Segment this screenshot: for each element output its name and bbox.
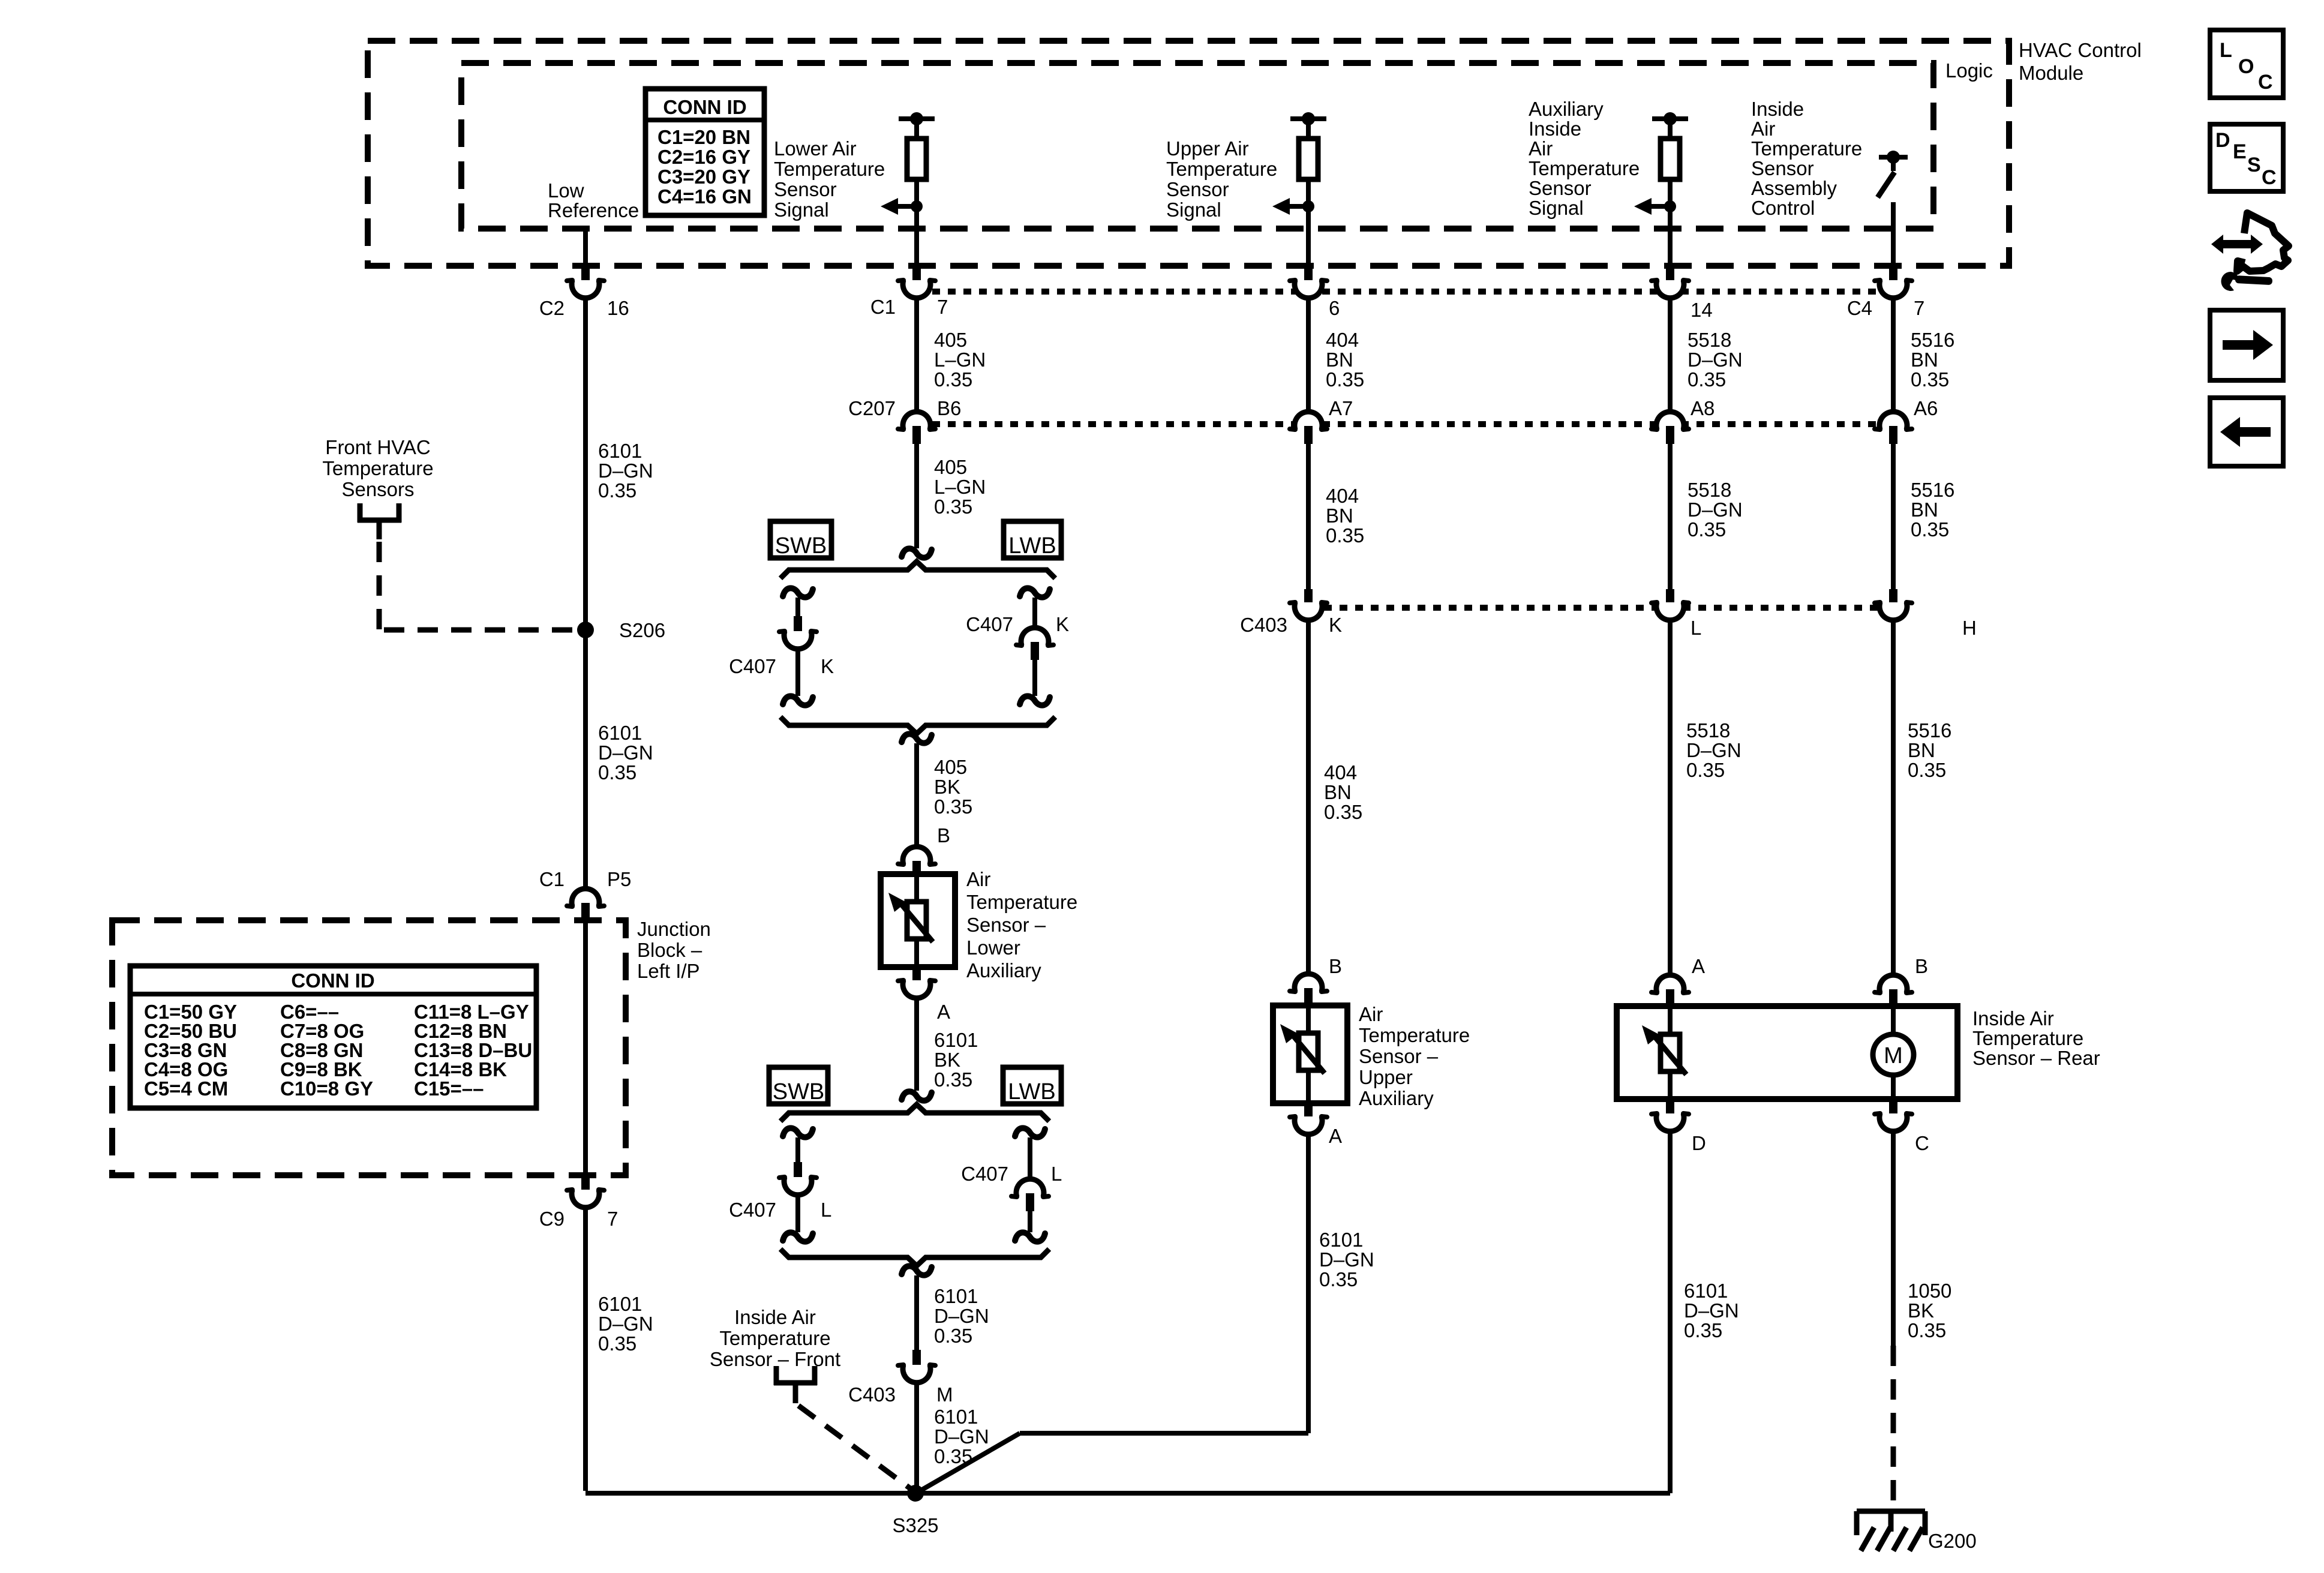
svg-text:0.35: 0.35: [1319, 1268, 1358, 1290]
switch inside air temp sensor assembly control (col5): [1879, 155, 1908, 160]
dotted net row C1 pins: [917, 289, 1893, 295]
svg-text:C4: C4: [1847, 297, 1872, 319]
thermistor lower aux: [907, 902, 926, 939]
svg-text:L: L: [2220, 39, 2232, 62]
svg-text:C1: C1: [539, 868, 565, 890]
svg-text:6: 6: [1329, 297, 1340, 319]
svg-text:A8: A8: [1691, 397, 1715, 419]
connector pin A upper aux sensor: [1304, 1103, 1313, 1120]
svg-text:D–GN: D–GN: [934, 1305, 989, 1327]
svg-text:O: O: [2238, 55, 2254, 78]
svg-text:404: 404: [1326, 329, 1359, 351]
svg-text:L–GN: L–GN: [934, 349, 986, 371]
connector pin C rear sensor: [1889, 1099, 1897, 1117]
dashed lead front sensor to S325: [798, 1406, 912, 1490]
svg-text:S: S: [2247, 154, 2261, 176]
svg-text:L: L: [821, 1199, 831, 1221]
branch SWB wire lower: [795, 650, 800, 696]
svg-text:Reference: Reference: [548, 199, 639, 221]
svg-text:Temperature: Temperature: [1529, 157, 1640, 179]
svg-text:A: A: [1329, 1125, 1342, 1147]
sidebar wrench-connector icon: [2211, 235, 2263, 254]
wire col2 to C403-M: [914, 1275, 919, 1351]
air temperature sensor - lower auxiliary box: [881, 874, 955, 967]
svg-text:6101: 6101: [934, 1029, 978, 1051]
resistor upper air temp sensor (col3): [1299, 139, 1318, 179]
air temperature sensor - upper auxiliary box: [1273, 1005, 1347, 1103]
svg-text:Signal: Signal: [1166, 199, 1221, 221]
connector pin A lower aux sensor: [912, 967, 921, 984]
svg-text:D–GN: D–GN: [934, 1425, 989, 1448]
branch SWB2 wire: [795, 1137, 800, 1163]
wire col3 C207 to C403: [1306, 444, 1311, 590]
branch SWB2 bottom squiggle: [783, 1232, 813, 1241]
svg-text:Control: Control: [1751, 197, 1815, 219]
svg-text:Air: Air: [966, 868, 990, 890]
connector C403-L (col4): [1666, 589, 1674, 606]
svg-text:5518: 5518: [1688, 329, 1731, 351]
connector pin B lower aux sensor: [903, 846, 930, 864]
wire col1 junction block to S325 bus: [583, 1209, 588, 1491]
branch LWB wire: [1032, 598, 1037, 628]
svg-text:BN: BN: [1911, 499, 1938, 521]
svg-text:Left I/P: Left I/P: [637, 960, 700, 982]
svg-text:M: M: [936, 1383, 953, 1406]
wire col5 sensor solid segment: [1891, 1133, 1896, 1346]
svg-text:0.35: 0.35: [1911, 368, 1949, 391]
svg-text:Lower: Lower: [966, 936, 1020, 959]
svg-text:C3=20 GY: C3=20 GY: [657, 166, 750, 188]
svg-text:0.35: 0.35: [598, 479, 636, 502]
connector C407-K SWB half: [794, 616, 802, 635]
svg-text:0.35: 0.35: [1684, 1319, 1722, 1341]
CONN ID table (junction block): [130, 966, 536, 1108]
wire col3 resistor to box edge: [1306, 179, 1311, 267]
wire col3 sensor to corner: [1306, 1136, 1311, 1433]
connector C407-L SWB half: [794, 1162, 802, 1181]
branch LWB wire lower: [1032, 660, 1037, 696]
dashed line front sensors to S206: [384, 628, 576, 633]
svg-text:Sensor: Sensor: [1529, 177, 1592, 199]
svg-text:C10=8 GY: C10=8 GY: [280, 1077, 373, 1100]
splice S206: [577, 622, 594, 638]
svg-text:BN: BN: [1908, 739, 1935, 761]
connector C407-K LWB half: [1021, 628, 1049, 646]
svg-text:6101: 6101: [1684, 1280, 1728, 1302]
connector pin D rear sensor: [1666, 1099, 1674, 1117]
svg-text:D–GN: D–GN: [1319, 1248, 1374, 1271]
branch LWB2 wire lower: [1028, 1211, 1032, 1232]
wire col4 row1-row2: [1668, 298, 1673, 413]
svg-text:0.35: 0.35: [934, 496, 972, 518]
svg-text:C403: C403: [1240, 614, 1287, 636]
svg-text:Temperature: Temperature: [1166, 158, 1277, 180]
svg-text:6101: 6101: [598, 722, 642, 744]
inside air temperature sensor - rear box: [1617, 1006, 1957, 1099]
svg-text:Inside Air: Inside Air: [1972, 1007, 2054, 1029]
svg-text:BK: BK: [1908, 1299, 1934, 1322]
svg-text:G200: G200: [1928, 1530, 1977, 1552]
sidebar LOC box: [2210, 30, 2283, 98]
svg-text:0.35: 0.35: [1324, 801, 1362, 823]
SWB tag box #1: [770, 521, 831, 558]
connector C403-K (col3): [1304, 589, 1313, 606]
svg-text:B: B: [1915, 955, 1928, 977]
wire col5 dashed to ground: [1891, 1346, 1896, 1512]
wire col4 resistor to box edge: [1668, 179, 1673, 267]
svg-text:405: 405: [934, 329, 967, 351]
svg-text:C407: C407: [729, 1199, 776, 1221]
svg-text:Sensor –: Sensor –: [1359, 1045, 1439, 1067]
wire col2 row1-row2: [914, 298, 919, 413]
resistor lower air temp sensor (col2) top tee: [899, 116, 935, 121]
wire col4 sensor to S325 bus: [1668, 1133, 1673, 1493]
thermistor rear sensor: [1661, 1034, 1680, 1071]
svg-text:6101: 6101: [598, 1293, 642, 1315]
svg-text:Sensor: Sensor: [1751, 157, 1814, 179]
svg-text:C407: C407: [729, 655, 776, 677]
svg-text:C403: C403: [848, 1383, 896, 1406]
svg-text:0.35: 0.35: [1911, 518, 1949, 541]
svg-text:C1=20 BN: C1=20 BN: [657, 126, 750, 148]
sidebar DESC box: [2210, 124, 2283, 191]
svg-text:S206: S206: [619, 619, 665, 641]
svg-text:C1: C1: [870, 296, 896, 318]
wire col2 below lower aux sensor: [914, 999, 919, 1091]
svg-text:D–GN: D–GN: [1686, 739, 1742, 761]
branch LWB2 bottom squiggle: [1015, 1232, 1045, 1241]
wire col5 C403 to sensor: [1891, 622, 1896, 974]
svg-text:Auxiliary: Auxiliary: [1529, 98, 1604, 120]
wire col5 row1-row2: [1891, 298, 1896, 413]
svg-text:Sensors: Sensors: [341, 478, 414, 500]
svg-text:0.35: 0.35: [934, 1068, 972, 1091]
svg-text:D–GN: D–GN: [598, 742, 653, 764]
svg-text:0.35: 0.35: [934, 368, 972, 391]
svg-text:0.35: 0.35: [1326, 524, 1364, 547]
svg-text:Temperature: Temperature: [719, 1327, 830, 1349]
ground bus wire S325: [585, 1491, 1670, 1496]
ground G200: [1857, 1509, 1925, 1514]
svg-text:Temperature: Temperature: [1359, 1024, 1470, 1046]
wire break squiggle col2 above brace1: [902, 548, 932, 557]
svg-text:Signal: Signal: [774, 199, 829, 221]
connector pin A rear sensor: [1656, 975, 1684, 993]
svg-text:C: C: [2258, 71, 2273, 94]
svg-text:5516: 5516: [1908, 719, 1951, 742]
signal arrow col3: [1289, 204, 1308, 209]
wire col4 C403 to sensor: [1668, 622, 1673, 974]
option brace bottom #1: [780, 717, 1055, 734]
svg-text:C2: C2: [539, 297, 565, 319]
svg-text:7: 7: [1914, 297, 1924, 319]
wire col3 row1-row2: [1306, 298, 1311, 413]
resistor lower air temp sensor (col2): [907, 139, 926, 179]
wire col4 C207 to C403: [1668, 444, 1673, 590]
svg-text:K: K: [1056, 613, 1069, 635]
svg-text:C5=4 CM: C5=4 CM: [144, 1077, 228, 1100]
splice S325: [907, 1485, 924, 1502]
branch LWB2 wire: [1028, 1137, 1032, 1179]
svg-text:CONN ID: CONN ID: [291, 969, 374, 992]
svg-text:Inside: Inside: [1529, 118, 1581, 140]
connector C207-B6 (col2): [903, 412, 930, 430]
svg-text:Low: Low: [548, 179, 584, 202]
svg-text:0.35: 0.35: [598, 1332, 636, 1355]
connector C207-A8 (col4): [1656, 412, 1684, 430]
sidebar right-arrow box: [2210, 310, 2283, 380]
branch LWB bottom squiggle: [1020, 696, 1050, 705]
svg-text:6101: 6101: [934, 1406, 978, 1428]
svg-text:Sensor: Sensor: [774, 178, 837, 200]
svg-text:14: 14: [1691, 299, 1713, 321]
svg-text:0.35: 0.35: [1908, 759, 1946, 781]
svg-text:6101: 6101: [598, 440, 642, 462]
svg-text:1050: 1050: [1908, 1280, 1951, 1302]
svg-text:BK: BK: [934, 776, 960, 798]
svg-text:Lower Air: Lower Air: [774, 137, 857, 160]
dashed lead front hvac sensors: [377, 542, 382, 630]
svg-text:Temperature: Temperature: [966, 891, 1077, 913]
svg-text:Sensor – Rear: Sensor – Rear: [1972, 1047, 2100, 1069]
SWB tag box #2: [769, 1067, 828, 1104]
svg-text:E: E: [2233, 140, 2247, 163]
svg-text:L–GN: L–GN: [934, 476, 986, 498]
svg-text:Module: Module: [2019, 62, 2083, 84]
svg-text:A7: A7: [1329, 397, 1353, 419]
signal arrow col2: [897, 204, 917, 209]
svg-text:5516: 5516: [1911, 329, 1954, 351]
svg-text:C: C: [1915, 1132, 1929, 1154]
option brace top #2: [780, 1104, 1049, 1121]
connector pin B rear sensor: [1879, 975, 1907, 993]
svg-text:Upper: Upper: [1359, 1066, 1413, 1088]
wire col1 through junction block: [583, 921, 588, 1175]
svg-text:B: B: [937, 824, 950, 846]
svg-text:Inside Air: Inside Air: [734, 1306, 816, 1328]
connector pin 14 (col4): [1666, 266, 1674, 284]
svg-text:BN: BN: [1911, 349, 1938, 371]
connector C9-7 junction block: [581, 1175, 590, 1193]
junction block dashed box: [112, 920, 626, 1175]
svg-text:BK: BK: [934, 1049, 960, 1071]
wire break squiggle col2 below brace1: [902, 734, 932, 743]
svg-text:L: L: [1691, 617, 1701, 639]
svg-text:C15=––: C15=––: [414, 1077, 484, 1100]
svg-text:Sensor –: Sensor –: [966, 914, 1046, 936]
svg-text:C407: C407: [966, 613, 1013, 635]
svg-text:0.35: 0.35: [1688, 518, 1726, 541]
svg-text:D–GN: D–GN: [598, 460, 653, 482]
resistor aux inside air temp sensor (col4) top tee: [1652, 116, 1688, 121]
svg-text:D–GN: D–GN: [598, 1313, 653, 1335]
svg-text:Temperature: Temperature: [1972, 1027, 2083, 1049]
svg-text:C: C: [2262, 166, 2277, 189]
branch SWB2 wire lower: [795, 1196, 800, 1232]
svg-text:0.35: 0.35: [1686, 759, 1725, 781]
connector C403-H (col5): [1889, 589, 1897, 606]
svg-text:5516: 5516: [1911, 479, 1954, 501]
branch SWB bottom squiggle: [783, 696, 813, 705]
CONN ID table (HVAC module connectors): [645, 89, 764, 215]
wire break squiggle col2 below brace2: [902, 1266, 932, 1275]
resistor aux inside air temp sensor (col4): [1661, 139, 1680, 179]
svg-text:404: 404: [1326, 485, 1359, 507]
svg-text:K: K: [1329, 614, 1342, 636]
svg-text:C2=16 GY: C2=16 GY: [657, 146, 750, 168]
svg-text:0.35: 0.35: [1326, 368, 1364, 391]
svg-text:D: D: [2215, 129, 2230, 152]
svg-text:Air: Air: [1751, 118, 1775, 140]
wire col2 C403 to S325: [914, 1384, 919, 1493]
wire diagonal to S325: [919, 1433, 1020, 1491]
wire col2 below C207: [914, 444, 919, 548]
connector C403-M (col2): [912, 1350, 921, 1368]
svg-text:C207: C207: [848, 397, 896, 419]
wire col3 C403 to sensor: [1306, 622, 1311, 974]
svg-text:Front HVAC: Front HVAC: [325, 436, 430, 458]
svg-text:D: D: [1692, 1132, 1706, 1154]
svg-text:405: 405: [934, 756, 967, 778]
svg-text:7: 7: [937, 296, 948, 318]
svg-text:B: B: [1329, 955, 1342, 977]
wire col2 to lower aux sensor: [914, 743, 919, 846]
svg-text:7: 7: [607, 1208, 618, 1230]
svg-text:BN: BN: [1326, 505, 1353, 527]
svg-text:Logic: Logic: [1945, 59, 1993, 82]
wire low reference (col1 inside module): [583, 229, 588, 267]
svg-text:6101: 6101: [934, 1285, 978, 1307]
svg-text:Block –: Block –: [637, 939, 702, 961]
svg-text:0.35: 0.35: [934, 795, 972, 818]
svg-text:Assembly: Assembly: [1751, 177, 1837, 199]
svg-text:Temperature: Temperature: [322, 457, 433, 479]
svg-text:6101: 6101: [1319, 1229, 1363, 1251]
svg-text:SWB: SWB: [775, 533, 827, 559]
Logic inner dashed box: [461, 63, 1933, 229]
svg-text:Junction: Junction: [637, 918, 711, 940]
svg-text:405: 405: [934, 456, 967, 478]
motor M rear sensor: [1873, 1034, 1914, 1075]
svg-text:LWB: LWB: [1008, 1079, 1056, 1104]
svg-text:0.35: 0.35: [598, 761, 636, 784]
svg-text:M: M: [1884, 1043, 1903, 1068]
wire col2 resistor to box edge: [914, 179, 919, 267]
svg-text:D–GN: D–GN: [1688, 499, 1743, 521]
svg-text:Inside: Inside: [1751, 98, 1804, 120]
connector pin 6 (col3): [1304, 266, 1313, 284]
svg-text:CONN ID: CONN ID: [663, 96, 746, 118]
svg-text:0.35: 0.35: [1688, 368, 1726, 391]
dotted net row C207: [917, 421, 1893, 427]
option brace top #1: [780, 562, 1055, 578]
svg-text:Air: Air: [1529, 137, 1553, 160]
svg-text:0.35: 0.35: [934, 1325, 972, 1347]
svg-text:Signal: Signal: [1529, 197, 1584, 219]
svg-text:Temperature: Temperature: [1751, 137, 1862, 160]
connector C207-A7 (col3): [1295, 412, 1322, 430]
bracket front sensor: [774, 1366, 779, 1385]
svg-text:Upper Air: Upper Air: [1166, 137, 1249, 160]
connector C207-A6 (col5): [1879, 412, 1907, 430]
svg-text:D–GN: D–GN: [1684, 1299, 1739, 1322]
wire col3 horizontal to diagonal: [1020, 1431, 1308, 1436]
wire break squiggle col2 above brace2: [902, 1091, 932, 1100]
signal arrow col4: [1651, 204, 1670, 209]
svg-text:0.35: 0.35: [1908, 1319, 1946, 1341]
svg-text:Air: Air: [1359, 1003, 1383, 1025]
svg-text:D–GN: D–GN: [1688, 349, 1743, 371]
LWB tag box #2: [1003, 1067, 1061, 1104]
branch SWB2 top squiggle: [783, 1128, 813, 1137]
wire col5 C207 to C403: [1891, 444, 1896, 590]
branch LWB2 top squiggle: [1015, 1128, 1045, 1137]
svg-text:S325: S325: [892, 1514, 938, 1536]
LWB tag box #1: [1004, 521, 1061, 558]
svg-text:Temperature: Temperature: [774, 158, 885, 180]
svg-text:Sensor: Sensor: [1166, 178, 1229, 200]
svg-text:5518: 5518: [1688, 479, 1731, 501]
svg-text:A6: A6: [1914, 397, 1938, 419]
svg-text:HVAC Control: HVAC Control: [2019, 39, 2142, 61]
svg-text:LWB: LWB: [1008, 533, 1056, 559]
connector pin C2-16 (col1): [581, 266, 590, 284]
connector C407-L LWB half: [1016, 1179, 1044, 1197]
connector pin B upper aux sensor: [1295, 974, 1322, 992]
svg-text:Auxiliary: Auxiliary: [1359, 1087, 1434, 1109]
svg-text:C4=16 GN: C4=16 GN: [657, 185, 752, 208]
svg-text:B6: B6: [937, 397, 961, 419]
option brace bottom #2: [780, 1249, 1049, 1266]
svg-text:A: A: [937, 1001, 950, 1023]
svg-text:5518: 5518: [1686, 719, 1730, 742]
sidebar left-arrow box: [2210, 398, 2283, 466]
svg-text:Auxiliary: Auxiliary: [966, 959, 1041, 981]
dotted net row C403: [1308, 605, 1893, 611]
thermistor upper aux: [1299, 1033, 1318, 1070]
svg-text:C9: C9: [539, 1208, 565, 1230]
resistor upper air temp sensor (col3) top tee: [1290, 116, 1326, 121]
branch SWB wire top squiggle: [783, 588, 813, 597]
branch LWB wire top squiggle: [1020, 588, 1050, 597]
svg-text:H: H: [1962, 617, 1977, 639]
wire col1 module to junction block: [583, 298, 588, 888]
svg-text:A: A: [1692, 955, 1705, 977]
svg-text:SWB: SWB: [773, 1079, 825, 1104]
connector C1-P5 junction block: [572, 888, 599, 906]
svg-text:404: 404: [1324, 761, 1357, 784]
connector pin C4-7 (col5): [1889, 266, 1897, 284]
svg-text:P5: P5: [607, 868, 631, 890]
svg-text:16: 16: [607, 297, 629, 319]
HVAC Control Module outer dashed box: [368, 41, 2009, 266]
svg-text:BN: BN: [1324, 781, 1352, 803]
bracket front hvac sensors: [358, 503, 363, 523]
connector pin C1-7 (col2): [912, 266, 921, 284]
svg-text:BN: BN: [1326, 349, 1353, 371]
svg-text:L: L: [1051, 1163, 1062, 1185]
svg-text:C407: C407: [961, 1163, 1008, 1185]
branch SWB wire: [795, 598, 800, 617]
svg-text:K: K: [821, 655, 834, 677]
